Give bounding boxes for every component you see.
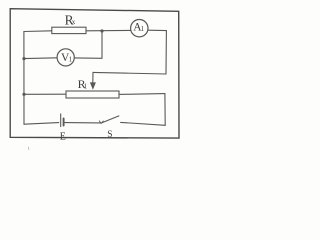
wire middle horizontal to slider	[93, 72, 166, 74]
wire voltmeter row left	[24, 57, 57, 60]
wire rheostat left	[24, 93, 66, 95]
wire right lower vertical	[164, 94, 166, 126]
ammeter A1	[131, 20, 148, 37]
wire left vertical	[23, 32, 25, 125]
wire bottom left segment	[24, 123, 59, 125]
wire voltmeter row right	[74, 57, 102, 59]
wire top-left segment	[24, 30, 52, 33]
svg-text:S: S	[107, 130, 112, 140]
svg-text:1: 1	[69, 55, 73, 63]
wire bottom right segment	[121, 122, 166, 125]
svg-text:E: E	[60, 132, 66, 143]
battery E	[60, 114, 101, 143]
speck mark	[27, 147, 29, 149]
node B junction dot	[22, 57, 25, 60]
svg-text:x: x	[72, 18, 76, 26]
switch S	[99, 116, 119, 140]
rheostat slider arrow	[90, 72, 96, 89]
wire Rx to node A	[86, 29, 131, 31]
resistor Rx	[52, 12, 86, 33]
wire ammeter to right corner	[148, 29, 167, 31]
svg-text:1: 1	[84, 83, 88, 91]
wire voltmeter vertical to node A	[101, 31, 103, 58]
node C junction dot	[22, 93, 25, 96]
node A junction dot	[100, 29, 103, 32]
voltmeter V1	[57, 49, 74, 66]
wire rheostat right	[119, 93, 165, 96]
svg-text:1: 1	[141, 25, 145, 33]
wire right upper vertical	[165, 31, 167, 74]
rheostat R1	[66, 77, 119, 98]
